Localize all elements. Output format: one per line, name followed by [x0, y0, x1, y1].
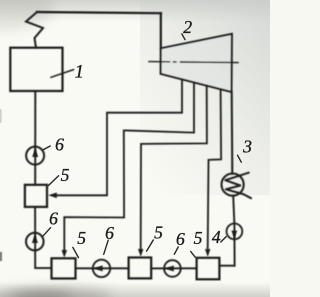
- svg-text:6: 6: [49, 209, 58, 229]
- pump 4 (condensate pump): [227, 224, 243, 240]
- arrowhead into heater 5d: [205, 249, 210, 257]
- pump 6b (lower left): [26, 233, 44, 251]
- svg-text:6: 6: [55, 134, 64, 154]
- heater 5b (bottom left): [52, 258, 76, 278]
- svg-text:5: 5: [154, 223, 163, 243]
- feed pipe 5d to pump 6d: [151, 267, 196, 269]
- scan edge marks: [0, 253, 2, 260]
- arrowhead in pump 6c (left): [94, 265, 103, 271]
- zigzag steam lead from boiler to main steam pipe: [26, 12, 43, 48]
- condenser cooling-water zigzag: [225, 173, 251, 198]
- steam pipe drop into turbine: [160, 13, 162, 48]
- arrowhead in pump 4 (down): [231, 231, 237, 239]
- feed pipe 5a to pump 6a: [34, 91, 36, 185]
- svg-text:6: 6: [176, 229, 185, 249]
- svg-text:1: 1: [75, 62, 84, 82]
- svg-text:3: 3: [242, 137, 252, 157]
- pump 6a (upper left): [26, 147, 44, 165]
- svg-text:5: 5: [77, 228, 86, 248]
- svg-text:5: 5: [194, 228, 203, 248]
- arrowhead into heater 5a: [48, 193, 57, 199]
- boiler 1: [10, 48, 62, 91]
- turbine shaft centerline (dash-dot): [149, 62, 238, 63]
- svg-text:4: 4: [212, 227, 221, 247]
- arrowhead into heater 5c: [138, 249, 143, 257]
- turbine 2: [161, 34, 232, 92]
- leader for label 6d: [174, 247, 178, 254]
- leader for label 4: [221, 237, 227, 243]
- pipe pump 4 to heater 5d: [219, 265, 234, 267]
- feed pipe 5b to left riser: [35, 207, 51, 268]
- heater 5a (left middle): [25, 185, 47, 207]
- leader for label 5a: [48, 176, 58, 186]
- leader for label 1: [51, 70, 74, 78]
- leader for label 6a: [42, 146, 50, 150]
- leader for label 3: [238, 155, 242, 162]
- condenser 3: [222, 174, 244, 196]
- main steam pipe (boiler to turbine): [37, 12, 161, 13]
- arrowhead in pump 6a (up): [32, 148, 38, 157]
- feed pipe 5c to pump 6c: [76, 267, 129, 269]
- heater 5c (bottom middle): [129, 258, 152, 279]
- extraction pipe to heater 5c (bottom middle): [141, 86, 207, 251]
- leader for label 5c: [147, 240, 154, 251]
- svg-text:5: 5: [61, 165, 70, 185]
- extraction pipe to heater 5a (left middle): [56, 80, 182, 196]
- heater 5d (bottom right): [197, 258, 220, 280]
- pump 6c: [93, 260, 110, 277]
- arrowhead into heater 5b: [62, 250, 67, 258]
- svg-text:6: 6: [105, 223, 114, 243]
- extraction pipe to heater 5b (bottom left): [64, 82, 194, 251]
- arrowhead in pump 6d (left): [165, 266, 174, 272]
- leader for label 5d: [191, 252, 196, 258]
- svg-text:2: 2: [183, 17, 192, 37]
- turbine exhaust pipe to condenser: [231, 92, 234, 174]
- leader for label 6c: [104, 240, 109, 254]
- leader for label 6b: [43, 228, 51, 237]
- leader for label 2: [182, 34, 185, 40]
- pipe condenser to pump 4: [233, 196, 234, 266]
- leader for label 5b: [73, 247, 79, 257]
- pump 6d: [164, 260, 181, 277]
- extraction pipe to heater 5d (bottom right): [208, 89, 221, 248]
- arrowhead in pump 6b (up): [32, 234, 38, 243]
